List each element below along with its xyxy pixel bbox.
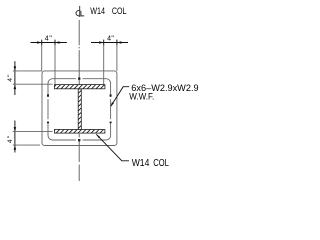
W14 column steel section: top flange — [54, 85, 105, 89]
extension lines — [13, 131, 53, 133]
extension lines — [41, 45, 43, 71]
svg-text:W14: W14 — [90, 6, 105, 16]
svg-text:COL: COL — [112, 6, 127, 16]
leader line to W14 COL (bottom) — [96, 134, 129, 161]
arrowheads — [14, 127, 17, 132]
gaps in W.W.F. line — [48, 79, 111, 140]
dimension 4" left-lower — [7, 121, 53, 153]
concrete encasement outline (outer square) — [42, 71, 117, 146]
W14 column steel section: bottom flange — [54, 130, 105, 134]
witness ticks — [41, 40, 43, 46]
svg-text:COL: COL — [153, 158, 169, 169]
leader arrowhead — [96, 134, 100, 138]
dimension line — [31, 42, 67, 44]
witness ticks — [103, 40, 105, 46]
dimension 4" top-left — [31, 36, 67, 85]
extension lines — [103, 45, 105, 84]
vertical centerline of column — [78, 20, 80, 181]
centerline crossing ticks — [78, 77, 80, 141]
dimension 4" left-upper — [7, 61, 53, 95]
leader arrowhead — [111, 102, 114, 107]
W.W.F. line tick marks — [48, 79, 111, 140]
W14 column steel section: web — [78, 89, 81, 130]
dimension line — [14, 121, 16, 153]
svg-text:4": 4" — [7, 73, 14, 82]
dimension line — [14, 61, 16, 95]
arrowheads — [37, 41, 42, 44]
centerline symbol CL — [76, 6, 84, 17]
extension lines — [13, 70, 42, 72]
svg-text:4": 4" — [107, 36, 114, 43]
svg-text:W14: W14 — [132, 158, 150, 169]
dimension 4" top-right — [91, 36, 128, 85]
svg-text:4": 4" — [45, 36, 53, 43]
svg-text:4": 4" — [7, 135, 14, 144]
dimension line — [91, 42, 128, 44]
W.W.F. wire fabric (inner rounded square) — [48, 79, 111, 140]
arrowheads — [99, 41, 104, 44]
arrowheads — [14, 66, 17, 71]
svg-text:W.W.F.: W.W.F. — [129, 92, 154, 102]
leader line to W.W.F. — [111, 87, 130, 107]
